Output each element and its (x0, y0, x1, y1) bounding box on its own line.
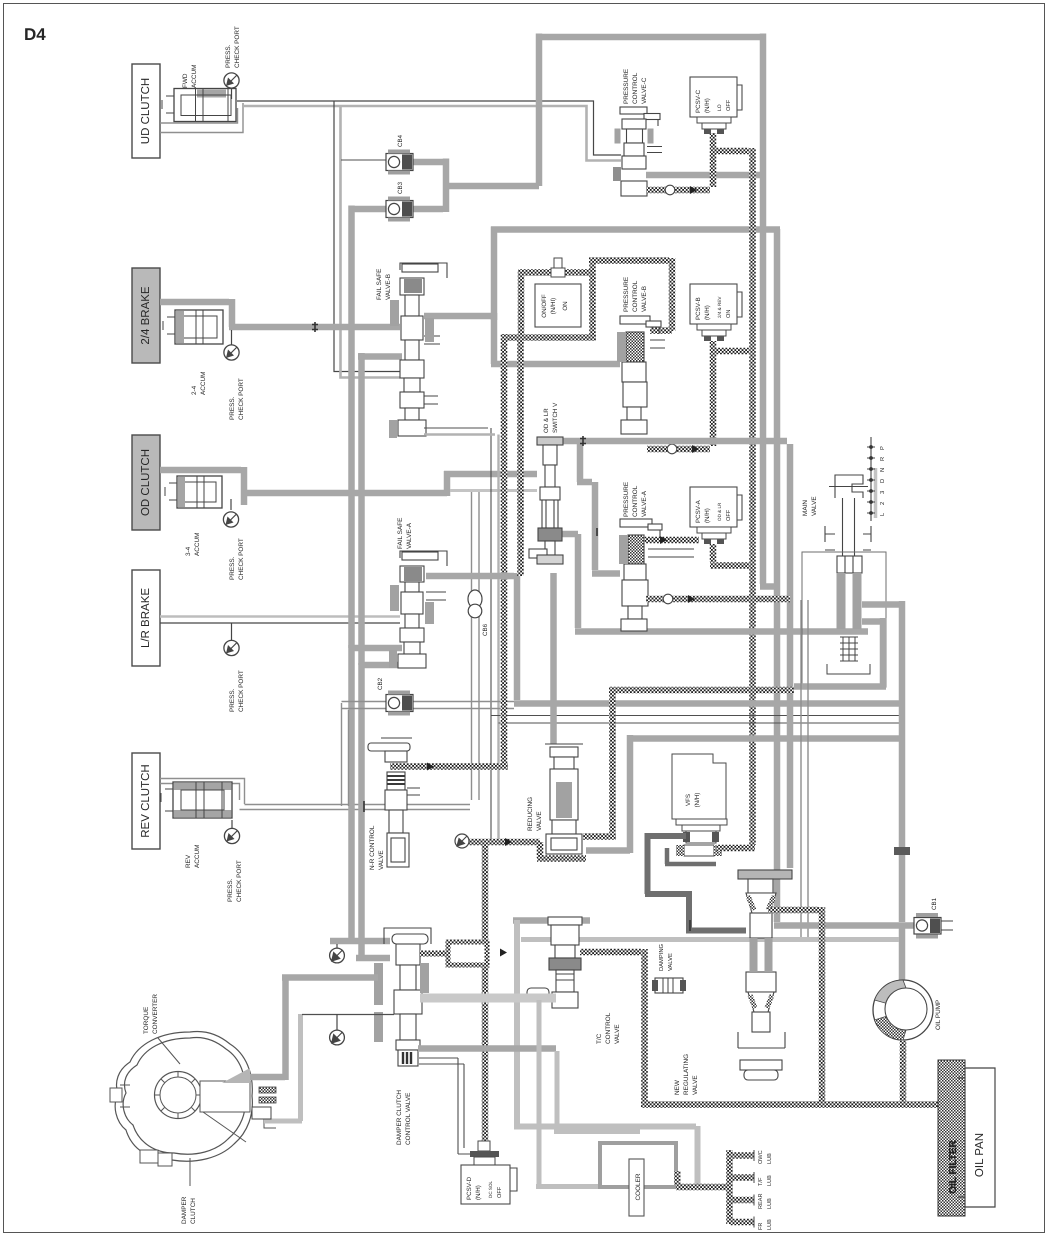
valve: fail safe valve-A output (426, 573, 899, 704)
wire: branch channel down to fail safe valve-B (334, 101, 400, 378)
svg-text:DAMPER CLUTCH: DAMPER CLUTCH (396, 1090, 403, 1145)
svg-text:2: 2 (879, 502, 886, 505)
press check port (REV) (224, 820, 239, 844)
wire: vertical to cooler (514, 920, 698, 1184)
valve: fail safe valve-B ports (358, 313, 620, 364)
svg-text:PRESS.: PRESS. (229, 688, 236, 712)
accumulator REV ACCUM (161, 782, 232, 818)
valve: fail safe valve-A body (398, 551, 447, 668)
spring in main valve enclosure (827, 637, 870, 674)
wire: hatched pilot over valve (768, 907, 822, 1102)
svg-text:FWD: FWD (182, 73, 189, 88)
svg-text:(N/H): (N/H) (475, 1185, 482, 1200)
svg-text:L/R BRAKE: L/R BRAKE (140, 588, 152, 648)
wire: PCV-C hatched pilot line (647, 133, 713, 190)
svg-text:PRESSURE: PRESSURE (623, 277, 630, 312)
tick marks (312, 322, 690, 931)
svg-text:REDUCING: REDUCING (527, 797, 534, 831)
valve: OD & LR switch V (529, 437, 563, 564)
svg-text:VALVE: VALVE (378, 850, 385, 870)
svg-text:CONTROL: CONTROL (632, 72, 639, 104)
svg-text:OD CLUTCH: OD CLUTCH (140, 449, 152, 516)
wire: T/C hatched branch down to sump frame (580, 949, 645, 1102)
TC seal hatched blocks (259, 1087, 276, 1093)
wire: T/C control valve top line (513, 917, 590, 924)
valve: main valve top bracket and stem (825, 475, 871, 573)
svg-text:2-4: 2-4 (191, 385, 198, 395)
OD CLUTCH label box (132, 435, 160, 530)
svg-text:3: 3 (879, 491, 886, 494)
valve: pressure control valve C (620, 107, 662, 196)
svg-text:CHECK PORT: CHECK PORT (236, 860, 243, 902)
svg-text:(N/H): (N/H) (704, 98, 711, 113)
svg-text:N: N (880, 468, 886, 472)
valve: pressure control valve B (620, 316, 665, 434)
check ball CB6 (468, 590, 482, 618)
svg-text:(N/H): (N/H) (704, 305, 711, 320)
wire: CB2 channel from REV line (342, 702, 515, 807)
svg-text:D: D (880, 479, 886, 483)
valve: fail safe valve-B body (398, 263, 447, 436)
wire: N-R hatched pilot line (390, 763, 508, 770)
accumulator 3-4 ACCUM (165, 476, 222, 508)
svg-text:VALVE: VALVE (692, 1075, 699, 1095)
wire: vertical channels to cooler loops (536, 1000, 640, 1187)
svg-text:(N/H): (N/H) (704, 508, 711, 523)
svg-text:VALVE-C: VALVE-C (641, 77, 648, 104)
wire: REV clutch main channel pair (240, 805, 471, 810)
svg-text:REGULATING: REGULATING (683, 1054, 690, 1095)
svg-text:OIL PUMP: OIL PUMP (935, 1000, 942, 1030)
svg-text:DAMPING: DAMPING (658, 943, 665, 971)
svg-text:CB2: CB2 (377, 677, 384, 690)
torque converter (110, 1032, 276, 1167)
junction connector (894, 847, 910, 855)
svg-text:P: P (880, 446, 886, 450)
svg-text:CLUTCH: CLUTCH (190, 1198, 197, 1224)
wire: dark feed into regulating valve (686, 928, 746, 934)
valve: damper clutch control valve (384, 928, 431, 1066)
solenoid PCSV-D (461, 1141, 517, 1204)
svg-text:(N/HI): (N/HI) (550, 298, 557, 315)
svg-text:VALVE: VALVE (811, 496, 818, 516)
wire: thin pair mid page (491, 716, 899, 724)
valve: pressure control valve A (620, 519, 694, 631)
svg-text:FR: FR (758, 1223, 764, 1230)
press check port (UD) (224, 73, 239, 99)
wire: PCV-A hatched pilot to PCSV-A (644, 540, 749, 566)
wire: hatch link into VFS (716, 845, 755, 852)
svg-text:CB4: CB4 (397, 134, 404, 147)
valve: main valve spool gray bars (837, 573, 846, 629)
svg-text:PRESS.: PRESS. (229, 396, 236, 420)
wire: hatched U under reducing valve (537, 687, 616, 859)
svg-text:FAIL SAFE: FAIL SAFE (376, 269, 383, 300)
svg-text:UD CLUTCH: UD CLUTCH (140, 78, 152, 144)
wire: hatched vertical H3 (517, 340, 524, 576)
wire: L/R brake line pair (160, 615, 400, 618)
svg-text:COOLER: COOLER (635, 1173, 642, 1200)
svg-text:PRESS.: PRESS. (229, 556, 236, 580)
svg-text:OD & LR: OD & LR (543, 408, 550, 433)
wire: pump to filter hatch (900, 1040, 907, 1102)
svg-text:CB6: CB6 (482, 623, 489, 636)
svg-text:PCSV-D: PCSV-D (466, 1176, 473, 1200)
svg-text:PCSV-C: PCSV-C (695, 89, 702, 113)
svg-text:OD & LR: OD & LR (717, 502, 722, 521)
wire: hatched segment of inner frame (609, 687, 794, 694)
svg-text:D4: D4 (24, 25, 46, 44)
svg-text:OWC: OWC (758, 1150, 764, 1164)
damping valve (652, 978, 686, 993)
svg-text:OIL FILTER: OIL FILTER (948, 1139, 959, 1193)
wire: channel to damping area (801, 600, 808, 940)
svg-text:ON: ON (562, 301, 569, 310)
svg-text:ACCUM: ACCUM (194, 845, 201, 868)
wire: TC return channel (264, 1014, 302, 1121)
wire: OD light line into switch (450, 489, 537, 492)
manual position indicator (867, 437, 886, 521)
svg-text:CHECK PORT: CHECK PORT (238, 378, 245, 420)
svg-text:VALVE: VALVE (536, 811, 543, 831)
svg-text:R: R (880, 457, 886, 461)
svg-text:LO: LO (717, 104, 723, 111)
svg-text:CONVERTER: CONVERTER (152, 994, 159, 1034)
cooler radiator frame (600, 1143, 676, 1187)
wire: hatched feed with check port (467, 839, 540, 846)
wire: vertical supply pair V1/V2 (330, 206, 402, 962)
wire: PCV-C thick output (646, 172, 760, 179)
svg-text:MAIN: MAIN (802, 500, 809, 516)
svg-text:VALVE-A: VALVE-A (406, 522, 413, 549)
svg-text:CB1: CB1 (931, 897, 938, 910)
svg-text:REV CLUTCH: REV CLUTCH (140, 764, 152, 837)
valve: new regulating valve (738, 870, 792, 1080)
solenoid VFS (N/H) (672, 754, 727, 856)
wire: PCSV-C hatch link to main hatched vertical (710, 148, 753, 845)
svg-text:CONTROL VALVE: CONTROL VALVE (405, 1093, 412, 1145)
flow arrows (427, 186, 699, 957)
svg-text:CONTROL: CONTROL (632, 280, 639, 312)
valve: N-R control valve (368, 738, 420, 867)
wire: CB1 supply line (774, 922, 914, 929)
svg-text:OFF: OFF (726, 509, 732, 521)
svg-text:LUB: LUB (767, 1153, 773, 1164)
svg-text:VALVE-B: VALVE-B (385, 274, 392, 300)
wire: CB4 link to channel (341, 159, 386, 161)
wire: light output line to frame (521, 937, 899, 942)
svg-text:N-R CONTROL: N-R CONTROL (369, 825, 376, 870)
svg-text:VFS: VFS (685, 794, 692, 806)
svg-text:PRESS.: PRESS. (225, 44, 232, 68)
wire: valve-B bottom channel to CB6 (424, 428, 491, 842)
svg-text:REAR: REAR (758, 1193, 764, 1209)
svg-text:ACCUM: ACCUM (200, 372, 207, 395)
wire: gray link reducing to vertical (586, 847, 630, 854)
accumulator FWD ACCUM (162, 89, 236, 122)
cooler label box (629, 1159, 644, 1216)
wire: sump hatched rail (641, 1101, 938, 1108)
svg-text:VALVE-B: VALVE-B (641, 286, 648, 312)
svg-text:PRESSURE: PRESSURE (623, 482, 630, 517)
svg-text:CB3: CB3 (397, 181, 404, 194)
svg-text:2/4 BRAKE: 2/4 BRAKE (140, 286, 152, 344)
wire: 2/4 brake thick tail (160, 299, 400, 327)
svg-text:(N/H): (N/H) (694, 793, 701, 808)
wire: damper valve outputs (418, 1045, 556, 1052)
svg-text:CONTROL: CONTROL (605, 1012, 612, 1044)
svg-text:ACCUM: ACCUM (191, 65, 198, 88)
wire: PCV-B hatched pilot output (647, 341, 749, 449)
wire: REV clutch tail channel (160, 779, 245, 805)
svg-text:VALVE: VALVE (614, 1024, 621, 1044)
svg-text:LUB: LUB (767, 1198, 773, 1209)
svg-text:3-4: 3-4 (185, 546, 192, 556)
wire: main valve enclosure frames (802, 552, 886, 687)
press check port (OD) (223, 499, 238, 527)
svg-text:TORQUE: TORQUE (143, 1007, 150, 1034)
wire: hatched vertical H1 (482, 845, 489, 1141)
check ball CB1 (914, 913, 953, 939)
wire: CB4/CB3 thick links (352, 159, 539, 213)
UD CLUTCH label box (132, 64, 160, 158)
svg-text:LUB: LUB (767, 1175, 773, 1186)
svg-text:T/F: T/F (757, 1177, 764, 1186)
wire: hatched frame around ON/OFF solenoid (504, 258, 672, 767)
press check port (2/4) (224, 330, 239, 360)
wire: cooler to lube comb hatch (676, 1184, 727, 1191)
svg-text:ON: ON (726, 310, 732, 318)
wire: feed to reducing valve (550, 573, 557, 744)
2/4 BRAKE label box (132, 268, 160, 363)
svg-text:LUB: LUB (767, 1219, 773, 1230)
svg-text:CONTROL: CONTROL (632, 485, 639, 517)
svg-text:ON/OFF: ON/OFF (541, 294, 548, 318)
wire: UD clutch box tail channel (160, 103, 243, 133)
check port on TC return (330, 1014, 345, 1045)
svg-text:VALVE: VALVE (668, 953, 674, 971)
oil pump (873, 980, 933, 1040)
wire: hatched chamber on H1 (420, 951, 448, 957)
svg-text:FAIL SAFE: FAIL SAFE (397, 518, 404, 549)
svg-text:CHECK PORT: CHECK PORT (234, 26, 241, 68)
svg-text:2/4 & REV: 2/4 & REV (717, 296, 722, 318)
L/R BRAKE label box (132, 570, 160, 666)
wire: TC thick supply (250, 975, 378, 1080)
solenoid ON/OFF (N/H) ON (535, 258, 581, 327)
solenoid PCSV-A (690, 487, 742, 544)
wire: VFS dark return U (665, 848, 716, 864)
solenoid PCSV-C (690, 77, 742, 134)
svg-text:PRESSURE: PRESSURE (623, 69, 630, 104)
solenoid PCSV-B (690, 284, 742, 341)
valve: T/C control valve (527, 917, 582, 1008)
svg-text:T/C: T/C (596, 1033, 603, 1044)
svg-text:OFF: OFF (497, 1186, 503, 1198)
svg-text:NEW: NEW (674, 1079, 681, 1095)
svg-text:CHECK PORT: CHECK PORT (238, 538, 245, 580)
svg-text:DAMPER: DAMPER (181, 1196, 188, 1224)
accumulator 2-4 ACCUM (163, 310, 223, 344)
wire: top thick supply line (491, 34, 780, 923)
wire: OD clutch thick tail and main line (160, 467, 537, 505)
valve: reducing valve (545, 744, 583, 854)
svg-text:DC SOL: DC SOL (488, 1180, 493, 1198)
check port on TC line (330, 944, 345, 963)
check ball CB4 (386, 150, 413, 175)
svg-text:OIL PAN: OIL PAN (974, 1133, 986, 1177)
wire: UD clutch main channel pair to PCV-C (237, 101, 621, 161)
svg-text:OFF: OFF (726, 99, 732, 111)
wire: OD&LR switch top line (560, 441, 868, 868)
svg-text:REV: REV (185, 854, 192, 868)
svg-text:CHECK PORT: CHECK PORT (238, 670, 245, 712)
check ball CB2 (386, 691, 413, 716)
labels lube circuits (757, 1150, 773, 1230)
lube distribution comb (730, 1150, 755, 1224)
REV CLUTCH label box (132, 753, 160, 849)
svg-text:ACCUM: ACCUM (194, 533, 201, 556)
svg-text:PCSV-A: PCSV-A (695, 499, 702, 523)
svg-text:VALVE-A: VALVE-A (641, 490, 648, 517)
wire: VFS dark supply (645, 833, 689, 933)
svg-text:SWITCH V: SWITCH V (552, 402, 559, 433)
check ball CB3 (386, 197, 413, 222)
svg-text:PRESS.: PRESS. (227, 878, 234, 902)
svg-text:PCSV-B: PCSV-B (695, 297, 702, 320)
wire: PCV-A hatched output line (646, 596, 790, 603)
oil filter (938, 1060, 965, 1216)
oil pan (958, 1068, 995, 1207)
wire: CB6 branch channel from OD light line (472, 492, 480, 800)
press check port (L/R) (224, 623, 239, 656)
